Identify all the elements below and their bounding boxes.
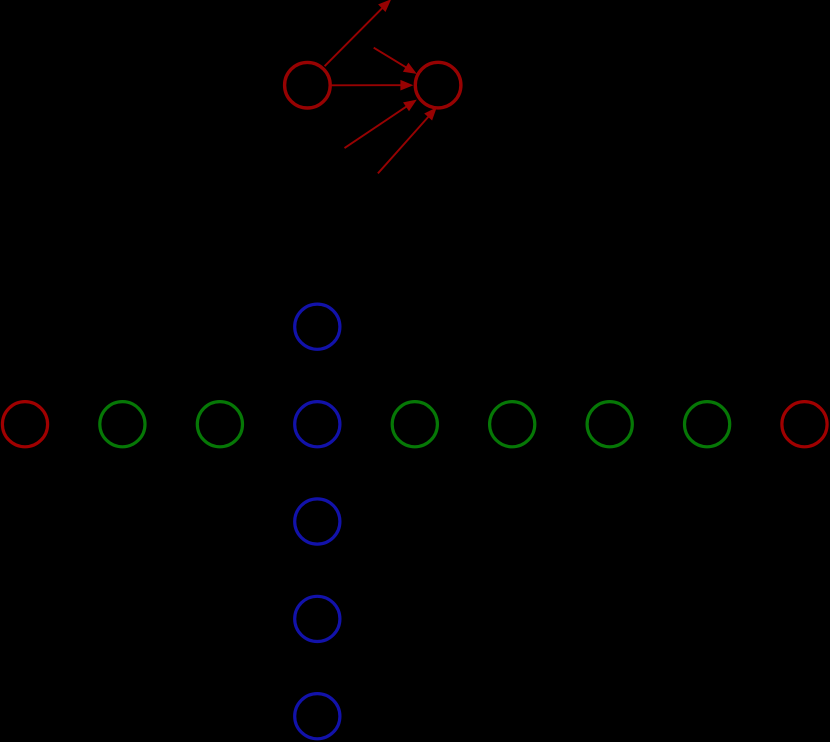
node col3 (blue) [295,499,340,544]
node row1 (green) [100,402,145,447]
arrow A : from node L up-right off canvas [325,0,392,66]
node center (blue, row/column crossing) [295,402,340,447]
node row7 (green) [685,402,730,447]
node col4 (blue) [295,596,340,641]
node row0 (left red) [2,402,47,447]
node R (top-right dark red) [415,62,461,108]
node L (top-left dark red) [285,62,331,108]
arrow D : floating segment from lower-left into node R [345,100,417,149]
node row5 (green) [490,402,535,447]
arrow B : floating segment into node R upper-left [374,48,417,74]
arrow C : node L to node R horizontal [331,80,413,91]
node row6 (green) [587,402,632,447]
node row4 (green) [392,402,437,447]
node row8 (right red) [782,402,827,447]
node col5 (blue, bottom) [295,694,340,739]
arrow E : floating segment from below into node R bottom [378,107,437,173]
node col-top (blue) [295,304,340,349]
node row2 (green) [197,402,242,447]
